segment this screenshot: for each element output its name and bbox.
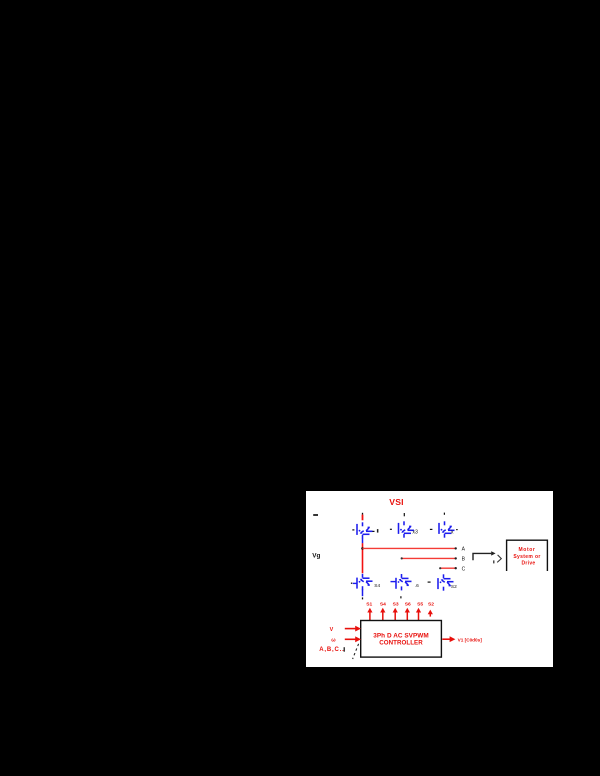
svg-text:ω: ω bbox=[331, 638, 336, 644]
wire phase line B bbox=[402, 557, 456, 559]
svg-text:A,B,C..: A,B,C.. bbox=[319, 647, 344, 653]
transistor S6 bbox=[396, 574, 412, 590]
node phase A end dot bbox=[455, 547, 457, 549]
svg-text:V1 [C0d0s]: V1 [C0d0s] bbox=[458, 638, 483, 643]
wire dashed leader bbox=[353, 644, 359, 659]
node bar after ABC bbox=[343, 647, 345, 652]
transistor S5 bbox=[439, 521, 455, 537]
svg-text:Vg: Vg bbox=[312, 552, 320, 559]
node chevron bbox=[497, 555, 501, 563]
arrow gate S1 bbox=[367, 608, 372, 621]
wire above S5 (black tick) bbox=[443, 513, 445, 515]
arrow output bbox=[442, 636, 455, 642]
wire above S3 (black tick) bbox=[403, 513, 405, 516]
transistor S4 gate lead bbox=[353, 582, 357, 584]
transistor S3 gate tick bbox=[390, 528, 392, 530]
wire tick below arrow bbox=[493, 560, 495, 563]
transistor S1 gate tick bbox=[352, 529, 354, 531]
transistor S2 bbox=[438, 574, 454, 590]
controller box U1 bbox=[361, 621, 442, 658]
wire below S6 tick bbox=[400, 596, 402, 598]
arrow gate S3 bbox=[393, 608, 398, 621]
svg-text:System or: System or bbox=[513, 554, 540, 560]
svg-text:S2: S2 bbox=[451, 584, 457, 590]
transistor S1 bbox=[357, 522, 373, 538]
svg-text:x3: x3 bbox=[412, 529, 418, 535]
wire below S4 tick bbox=[362, 597, 364, 599]
arrow input V bbox=[345, 626, 361, 632]
svg-text:S6: S6 bbox=[405, 602, 411, 608]
transistor S6 gate lead bbox=[391, 581, 396, 583]
transistor S4 bbox=[357, 574, 373, 590]
arrow bent to load bbox=[473, 551, 496, 560]
svg-text:Motor: Motor bbox=[519, 547, 536, 553]
svg-text:Drive: Drive bbox=[521, 561, 535, 567]
wire leg A top stub (red) bbox=[362, 515, 364, 521]
svg-text:x: x bbox=[451, 529, 454, 535]
wire leg A middle (red) bbox=[362, 539, 364, 544]
wire phase line A bbox=[363, 547, 456, 549]
arrow gate S5 bbox=[416, 608, 421, 621]
svg-text:VSI: VSI bbox=[389, 497, 403, 507]
arrow gate S4 bbox=[380, 608, 385, 621]
svg-text:3Ph D AC SVPWM: 3Ph D AC SVPWM bbox=[373, 632, 429, 639]
transistor S2 gate tick bbox=[428, 581, 431, 583]
node phase B end dot bbox=[455, 557, 457, 559]
transistor S5 gate tick bbox=[430, 528, 433, 530]
wire below S4 (blue) bbox=[362, 590, 364, 597]
svg-text:S4: S4 bbox=[374, 583, 380, 589]
load box (motor/system/drive) bbox=[507, 540, 548, 571]
node phase B left dot bbox=[401, 557, 403, 559]
svg-text:S3: S3 bbox=[393, 602, 399, 608]
transistor S3 bbox=[399, 521, 415, 537]
svg-text:C: C bbox=[462, 566, 466, 572]
svg-text:CONTROLLER: CONTROLLER bbox=[379, 640, 423, 647]
svg-text:V: V bbox=[330, 627, 334, 633]
svg-text:S2: S2 bbox=[428, 602, 434, 608]
schematic white panel bbox=[306, 491, 553, 667]
svg-text:.6: .6 bbox=[415, 583, 419, 589]
svg-text:S5: S5 bbox=[417, 602, 423, 608]
wire phase line C bbox=[440, 567, 456, 569]
label S1 marks bbox=[372, 530, 374, 532]
svg-text:S1: S1 bbox=[366, 602, 372, 608]
node junction leg A / phase A bbox=[361, 547, 364, 550]
arrow gate S2 (short) bbox=[428, 610, 433, 617]
wire leg A top stub (black tick) bbox=[362, 513, 364, 515]
arrow input w bbox=[345, 636, 361, 642]
svg-text:S4: S4 bbox=[380, 602, 386, 608]
arrow gate S6 bbox=[405, 608, 410, 621]
node phase C left dot bbox=[439, 567, 441, 569]
node phase C end dot bbox=[455, 567, 457, 569]
node minus terminal bbox=[313, 514, 318, 516]
